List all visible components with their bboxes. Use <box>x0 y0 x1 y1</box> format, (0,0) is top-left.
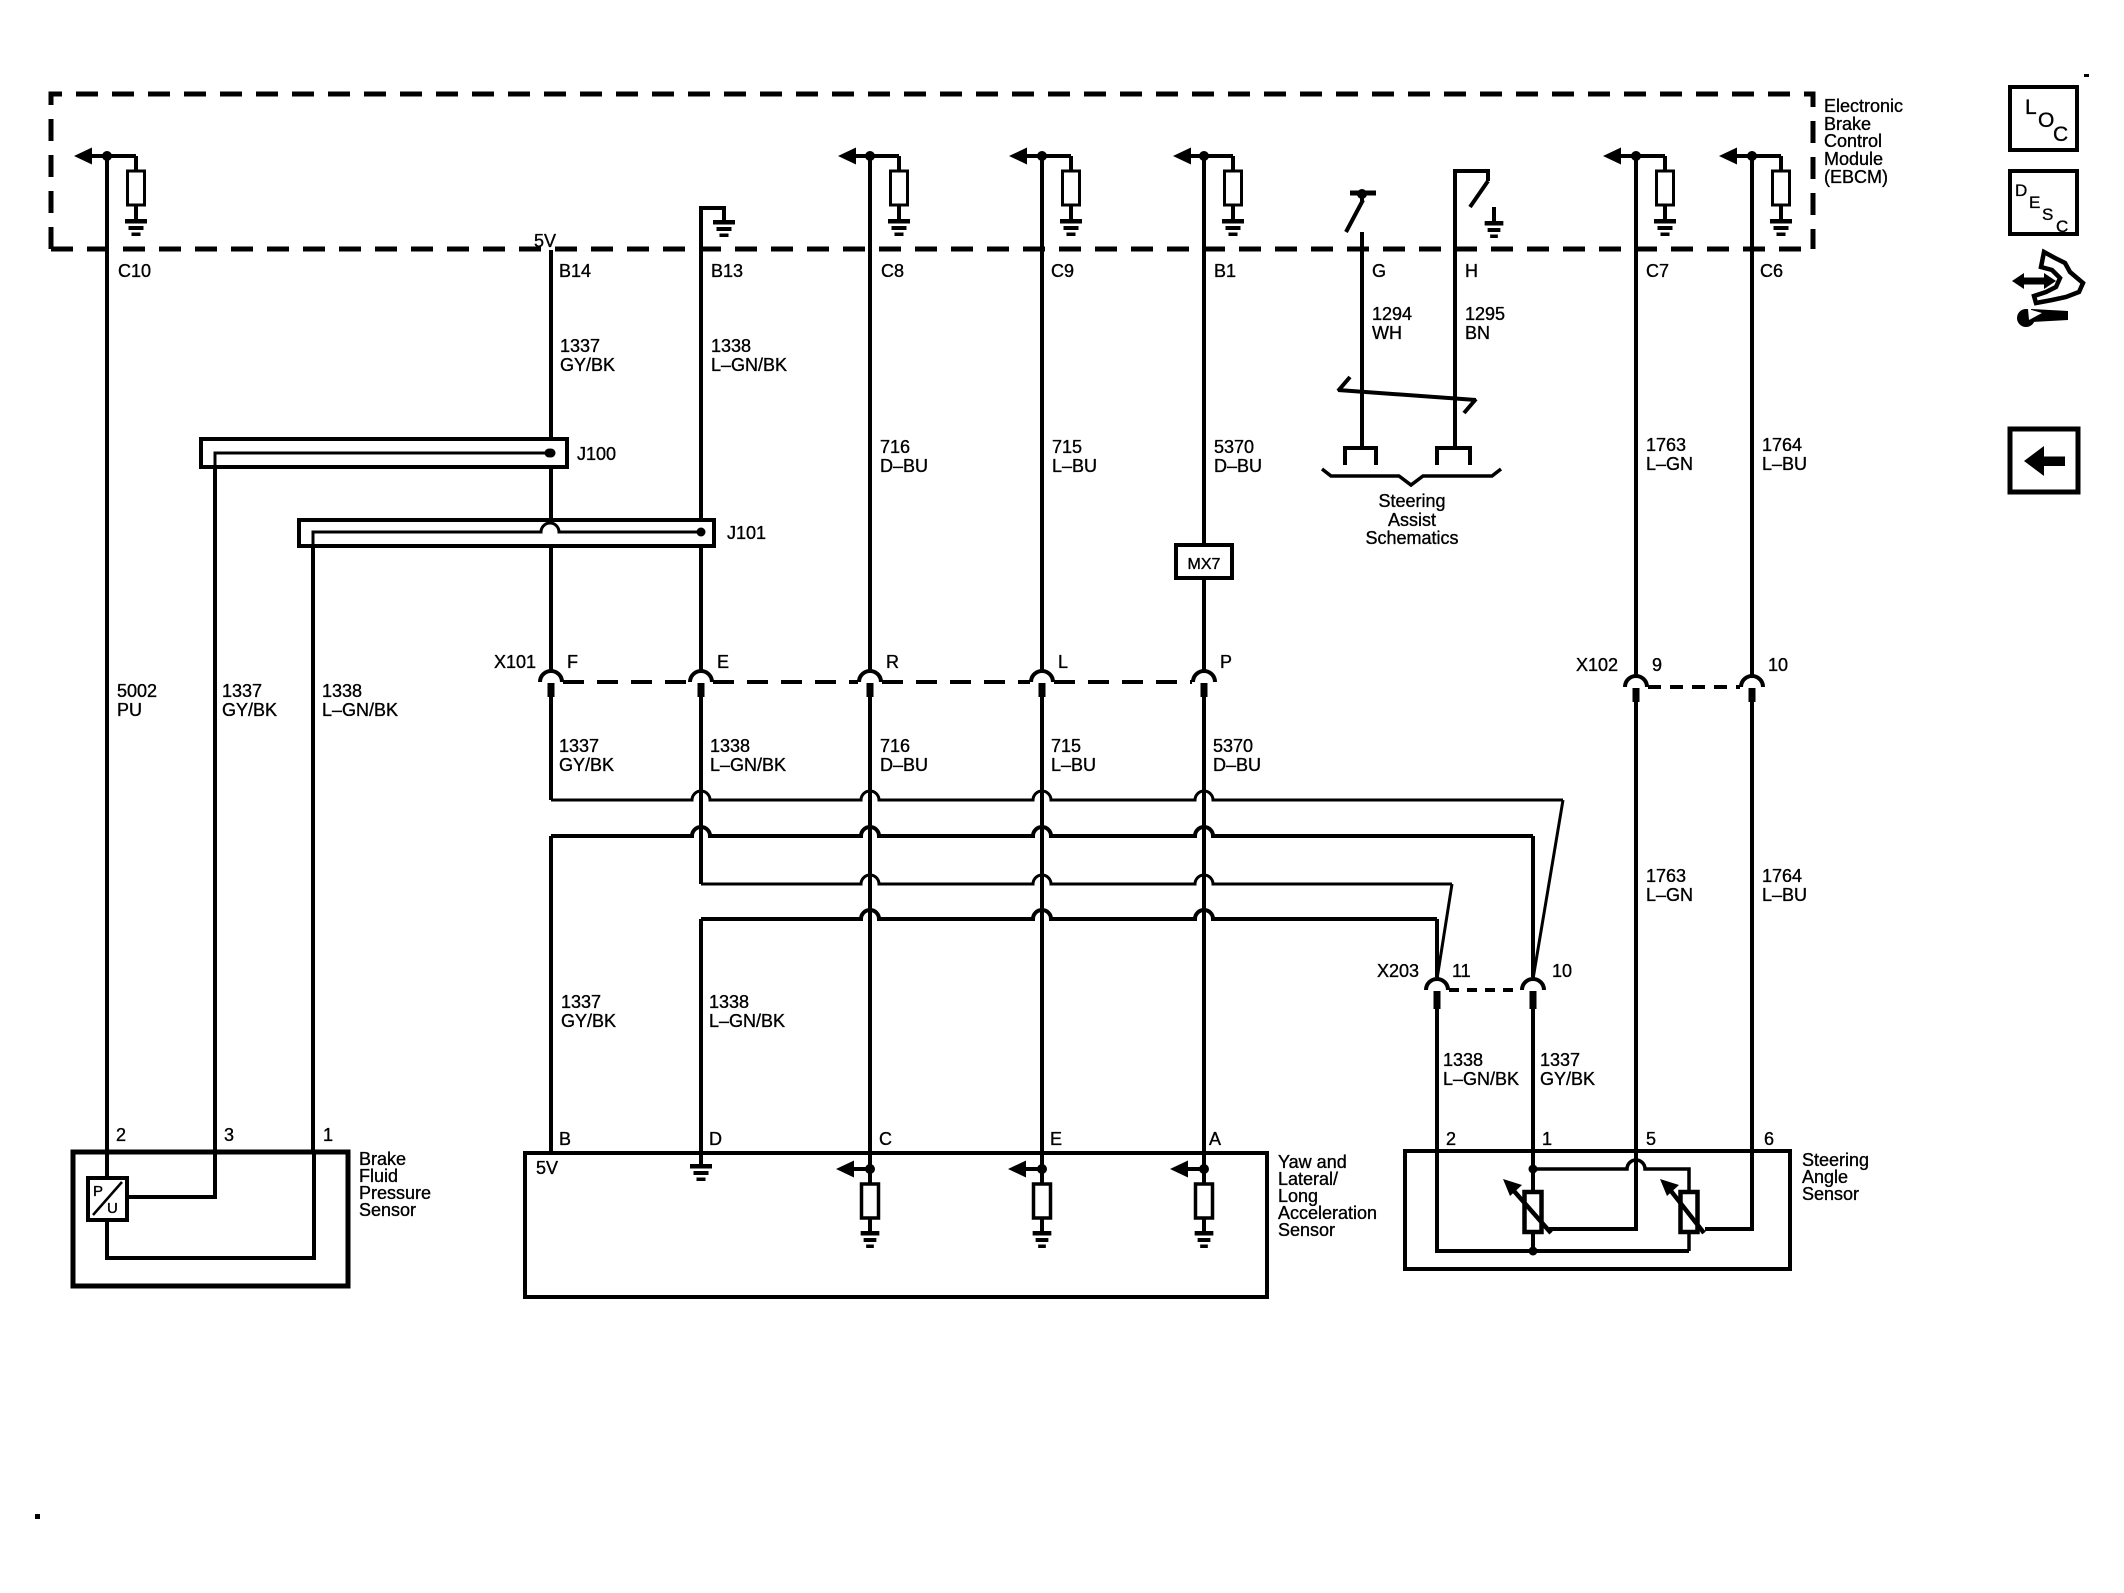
tools icon <box>2034 252 2083 303</box>
wire 1337 bus (thick) to yaw sensor pin B <box>551 827 1533 836</box>
svg-text:B14: B14 <box>559 261 591 281</box>
svg-text:P: P <box>93 1183 103 1200</box>
svg-text:1764: 1764 <box>1762 866 1802 886</box>
pull-up resistor at EBCM pin C10 <box>134 156 138 171</box>
svg-text:D: D <box>2015 181 2027 200</box>
svg-text:GY/BK: GY/BK <box>560 355 615 375</box>
terminator at wire 1294 <box>1345 448 1376 465</box>
svg-text:5V: 5V <box>534 231 556 251</box>
svg-text:G: G <box>1372 261 1386 281</box>
svg-text:GY/BK: GY/BK <box>561 1011 616 1031</box>
switch contact at EBCM pin G <box>1350 191 1376 196</box>
wire 5370 from X101 pin P to yaw sensor pin A <box>1202 697 1206 1154</box>
wire 1338 from X101 pin E down <box>699 697 703 884</box>
svg-text:L–GN/BK: L–GN/BK <box>709 1011 785 1031</box>
connector X101 pin P <box>1193 671 1215 682</box>
Steering Angle Sensor box <box>1405 1151 1790 1269</box>
junction dot at yaw sensor pin A <box>1199 1164 1209 1174</box>
svg-text:X101: X101 <box>494 652 536 672</box>
variable resistor track 2 <box>1681 1192 1698 1232</box>
connector X102 pin 9 <box>1625 676 1647 687</box>
wiper arrow track 2 <box>1671 1191 1704 1233</box>
pull-up resistor at EBCM pin C9 <box>1069 156 1073 171</box>
terminator at wire 1295 <box>1437 448 1470 465</box>
wire 5370 D-BU from B1 to X101 pin P <box>1202 156 1206 545</box>
wire steering pin 5 to wiper 1 <box>1549 1154 1636 1229</box>
svg-text:D–BU: D–BU <box>880 755 928 775</box>
svg-text:1338: 1338 <box>710 736 750 756</box>
wire 1337 GY/BK (X203 pin 10 to steering sensor pin 1) <box>1531 1009 1535 1154</box>
svg-text:P: P <box>1220 652 1232 672</box>
svg-text:MX7: MX7 <box>1188 556 1221 573</box>
svg-text:Module: Module <box>1824 149 1883 169</box>
svg-text:Steering: Steering <box>1378 491 1445 511</box>
wire 1764 L-BU from C6 to X102 pin 10 <box>1750 156 1754 676</box>
svg-text:J101: J101 <box>727 523 766 543</box>
wire 1763 L-GN from C7 to X102 pin 9 <box>1634 156 1638 676</box>
svg-text:L–GN: L–GN <box>1646 885 1693 905</box>
wire 1337 from X101 pin F down <box>549 697 553 800</box>
svg-text:1337: 1337 <box>559 736 599 756</box>
svg-text:C8: C8 <box>881 261 904 281</box>
brace for Steering Assist Schematics <box>1322 469 1501 485</box>
svg-text:S: S <box>2042 205 2053 224</box>
svg-text:X203: X203 <box>1377 961 1419 981</box>
svg-text:Control: Control <box>1824 131 1882 151</box>
junction dot J100 on wire 1337 <box>547 449 556 458</box>
svg-text:1294: 1294 <box>1372 304 1412 324</box>
signal arrow at yaw sensor pin E <box>1008 1161 1026 1178</box>
svg-text:10: 10 <box>1552 961 1572 981</box>
svg-text:1763: 1763 <box>1646 435 1686 455</box>
svg-text:9: 9 <box>1652 655 1662 675</box>
svg-text:1338: 1338 <box>709 992 749 1012</box>
svg-text:PU: PU <box>117 700 142 720</box>
wire 716 D-BU from C8 to X101 pin R <box>868 156 872 671</box>
svg-text:715: 715 <box>1051 736 1081 756</box>
wire 1763 L-GN (X102 pin 9 to steering sensor pin 5) <box>1634 702 1638 1154</box>
junction dot steering pin 1 <box>1529 1165 1538 1174</box>
svg-text:1337: 1337 <box>1540 1050 1580 1070</box>
svg-text:D–BU: D–BU <box>880 456 928 476</box>
connector X203 pin 10 <box>1522 979 1544 990</box>
svg-text:GY/BK: GY/BK <box>1540 1069 1595 1089</box>
ground at EBCM pin C10 <box>125 219 147 224</box>
svg-text:1337: 1337 <box>560 336 600 356</box>
ground at yaw sensor pin A <box>1195 1231 1214 1236</box>
svg-text:1: 1 <box>323 1125 333 1145</box>
off-page arrow through wires 1294/1295 <box>1338 390 1476 400</box>
connector X101 pin E <box>690 671 712 682</box>
svg-text:C: C <box>879 1129 892 1149</box>
svg-text:WH: WH <box>1372 323 1402 343</box>
svg-text:2: 2 <box>116 1125 126 1145</box>
svg-text:(EBCM): (EBCM) <box>1824 167 1888 187</box>
wire 715 L-BU from C9 to X101 pin L <box>1040 156 1044 671</box>
svg-text:1338: 1338 <box>1443 1050 1483 1070</box>
junction dot at yaw sensor pin E <box>1037 1164 1047 1174</box>
svg-text:11: 11 <box>1452 961 1471 981</box>
svg-text:715: 715 <box>1052 437 1082 457</box>
svg-text:5370: 5370 <box>1214 437 1254 457</box>
stray mark top right <box>2084 74 2089 77</box>
ground at EBCM pin C8 <box>888 219 910 224</box>
svg-text:L–BU: L–BU <box>1051 755 1096 775</box>
svg-text:E: E <box>2029 193 2040 212</box>
connector X203 dashed line <box>1449 988 1521 992</box>
svg-text:1: 1 <box>1542 1129 1552 1149</box>
svg-text:L: L <box>2025 96 2037 119</box>
svg-text:5V: 5V <box>536 1158 558 1178</box>
svg-text:L–GN/BK: L–GN/BK <box>710 755 786 775</box>
svg-text:B1: B1 <box>1214 261 1236 281</box>
splice J100 <box>201 439 567 467</box>
svg-text:6: 6 <box>1764 1129 1774 1149</box>
wire steering pin 1 to track junction <box>1531 1154 1535 1194</box>
Brake Fluid Pressure Sensor box <box>73 1152 348 1286</box>
wire 1338 L-GN/BK (J101 to brake sensor pin 1) <box>311 547 315 1154</box>
pull-up resistor at EBCM pin B1 <box>1231 156 1235 171</box>
wire steering pin 2 <box>1435 1154 1439 1253</box>
wire 1764 L-BU (X102 pin 10 to steering sensor pin 6) <box>1750 702 1754 1154</box>
svg-text:H: H <box>1465 261 1478 281</box>
connector X101 pin L <box>1031 671 1053 682</box>
svg-text:D–BU: D–BU <box>1214 456 1262 476</box>
svg-text:Sensor: Sensor <box>1278 1220 1335 1240</box>
junction dot at EBCM pin C7 <box>1631 151 1641 161</box>
wire 1337 bus to X203 pin 10 <box>551 791 1563 800</box>
signal arrow at EBCM pin C7 <box>1603 148 1621 165</box>
svg-text:GY/BK: GY/BK <box>559 755 614 775</box>
svg-text:5: 5 <box>1646 1129 1656 1149</box>
variable resistor track 1 <box>1525 1192 1542 1232</box>
connector X101 dashed line <box>563 680 1192 684</box>
svg-text:J100: J100 <box>577 444 616 464</box>
svg-text:716: 716 <box>880 437 910 457</box>
svg-text:L–BU: L–BU <box>1762 885 1807 905</box>
svg-text:D–BU: D–BU <box>1213 755 1261 775</box>
bottom bus inside steering sensor <box>1437 1249 1689 1253</box>
stray mark bottom left <box>35 1514 40 1519</box>
pull-up resistor at EBCM pin C8 <box>897 156 901 171</box>
svg-text:1764: 1764 <box>1762 435 1802 455</box>
resistor at yaw sensor pin A <box>1202 1154 1206 1184</box>
wire 1338 bus (thick) to yaw sensor pin D <box>701 910 1437 919</box>
svg-text:B: B <box>559 1129 571 1149</box>
wire track1 top to track2 top <box>1533 1160 1689 1192</box>
svg-text:C7: C7 <box>1646 261 1669 281</box>
junction dot at EBCM pin C6 <box>1747 151 1757 161</box>
junction dot steering bottom <box>1529 1247 1538 1256</box>
svg-text:10: 10 <box>1768 655 1788 675</box>
wire 1338 bus to X203 pin 11 <box>701 875 1452 884</box>
signal arrow at yaw sensor pin C <box>836 1161 854 1178</box>
svg-text:GY/BK: GY/BK <box>222 700 277 720</box>
svg-text:1337: 1337 <box>222 681 262 701</box>
ground at yaw sensor pin E <box>1033 1231 1052 1236</box>
LOC icon box <box>2010 87 2077 150</box>
wire 1337 GY/BK (J100 to brake sensor pin 3) <box>213 468 217 1154</box>
ground at EBCM pin H <box>1492 207 1496 221</box>
resistor at yaw sensor pin E <box>1040 1154 1044 1184</box>
wire 1337 GY/BK from B14 to X101 pin F <box>549 250 553 671</box>
svg-text:L–GN: L–GN <box>1646 454 1693 474</box>
svg-text:C: C <box>2056 217 2068 236</box>
svg-text:716: 716 <box>880 736 910 756</box>
ground at EBCM pin B1 <box>1222 219 1244 224</box>
svg-text:R: R <box>886 652 899 672</box>
ground at EBCM pin C6 <box>1770 219 1792 224</box>
wire P/U to pin1 <box>107 1154 314 1258</box>
junction dot at EBCM pin C9 <box>1037 151 1047 161</box>
wire pin3 to P/U <box>129 1154 215 1197</box>
signal arrow at EBCM pin C8 <box>838 148 856 165</box>
back arrow icon box <box>2010 429 2078 492</box>
connector X203 pin 11 <box>1426 979 1448 990</box>
svg-text:C10: C10 <box>118 261 151 281</box>
wire 716 from X101 pin R to yaw sensor pin C <box>868 697 872 1154</box>
svg-text:F: F <box>567 652 578 672</box>
svg-text:1295: 1295 <box>1465 304 1505 324</box>
pressure sensor element P/U <box>88 1178 127 1220</box>
connector X102 pin 10 <box>1741 676 1763 687</box>
svg-text:A: A <box>1209 1129 1221 1149</box>
ground at EBCM pin B13 <box>701 208 724 250</box>
DESC icon box <box>2010 171 2077 234</box>
svg-text:Electronic: Electronic <box>1824 96 1903 116</box>
ground at EBCM pin C7 <box>1654 219 1676 224</box>
svg-text:L–GN/BK: L–GN/BK <box>1443 1069 1519 1089</box>
connector X101 pin R <box>859 671 881 682</box>
wire pin2 to P/U <box>105 1154 109 1180</box>
signal arrow at EBCM pin C9 <box>1009 148 1027 165</box>
svg-text:X102: X102 <box>1576 655 1618 675</box>
ground at yaw sensor pin C <box>861 1231 880 1236</box>
Yaw and Lateral/Long Acceleration Sensor box <box>525 1153 1267 1297</box>
svg-text:L: L <box>1058 652 1068 672</box>
wiper arrow track 1 <box>1514 1191 1551 1233</box>
signal arrow at EBCM pin B1 <box>1173 148 1191 165</box>
resistor at yaw sensor pin C <box>868 1154 872 1184</box>
svg-text:5370: 5370 <box>1213 736 1253 756</box>
svg-text:L–GN/BK: L–GN/BK <box>322 700 398 720</box>
svg-text:BN: BN <box>1465 323 1490 343</box>
junction dot at EBCM pin C10 <box>102 151 112 161</box>
pull-up resistor at EBCM pin C6 <box>1779 156 1783 171</box>
connector X101 pin F <box>540 671 562 682</box>
svg-text:2: 2 <box>1446 1129 1456 1149</box>
svg-text:Sensor: Sensor <box>359 1200 416 1220</box>
svg-text:L–GN/BK: L–GN/BK <box>711 355 787 375</box>
svg-text:O: O <box>2038 109 2054 132</box>
wire 1338 L-GN/BK from B13 to X101 pin E <box>699 250 703 671</box>
svg-text:1338: 1338 <box>711 336 751 356</box>
wire 1338 L-GN/BK (X203 pin 11 to steering sensor pin 2) <box>1435 1009 1439 1154</box>
svg-text:L–BU: L–BU <box>1762 454 1807 474</box>
EBCM module dashed outline <box>51 94 1813 249</box>
junction dot at yaw sensor pin C <box>865 1164 875 1174</box>
svg-text:B13: B13 <box>711 261 743 281</box>
svg-text:L–BU: L–BU <box>1052 456 1097 476</box>
signal arrow at yaw sensor pin A <box>1170 1161 1188 1178</box>
svg-text:D: D <box>709 1129 722 1149</box>
ground at EBCM pin C9 <box>1060 219 1082 224</box>
wire steering pin 6 to wiper 2 <box>1705 1154 1752 1229</box>
pull-up resistor at EBCM pin C7 <box>1663 156 1667 171</box>
junction dot at EBCM pin C8 <box>865 151 875 161</box>
svg-text:Sensor: Sensor <box>1802 1184 1859 1204</box>
svg-text:1338: 1338 <box>322 681 362 701</box>
svg-text:1763: 1763 <box>1646 866 1686 886</box>
wire 1295 BN at pin H <box>1453 250 1457 446</box>
svg-text:C: C <box>2053 123 2068 146</box>
signal arrow at EBCM pin C6 <box>1719 148 1737 165</box>
svg-text:3: 3 <box>224 1125 234 1145</box>
switch contact at EBCM pin H <box>1455 171 1488 250</box>
svg-text:1337: 1337 <box>561 992 601 1012</box>
svg-text:C9: C9 <box>1051 261 1074 281</box>
junction dot at EBCM pin B1 <box>1199 151 1209 161</box>
svg-text:U: U <box>107 1200 118 1217</box>
svg-text:E: E <box>717 652 729 672</box>
connector X102 dashed line <box>1648 685 1740 689</box>
ground at yaw sensor pin D <box>699 1154 703 1164</box>
svg-text:5002: 5002 <box>117 681 157 701</box>
connector MX7 <box>1176 545 1232 578</box>
svg-text:Assist: Assist <box>1388 510 1436 530</box>
svg-text:E: E <box>1050 1129 1062 1149</box>
wire 1294 WH at pin G <box>1360 232 1364 446</box>
svg-text:Schematics: Schematics <box>1365 528 1458 548</box>
splice J101 <box>299 520 714 546</box>
signal arrow at EBCM pin C10 <box>74 148 92 165</box>
svg-text:C6: C6 <box>1760 261 1783 281</box>
wire 5002 PU (C10 to brake sensor pin 2) <box>105 156 109 1154</box>
wire 715 from X101 pin L to yaw sensor pin E <box>1040 697 1044 1154</box>
